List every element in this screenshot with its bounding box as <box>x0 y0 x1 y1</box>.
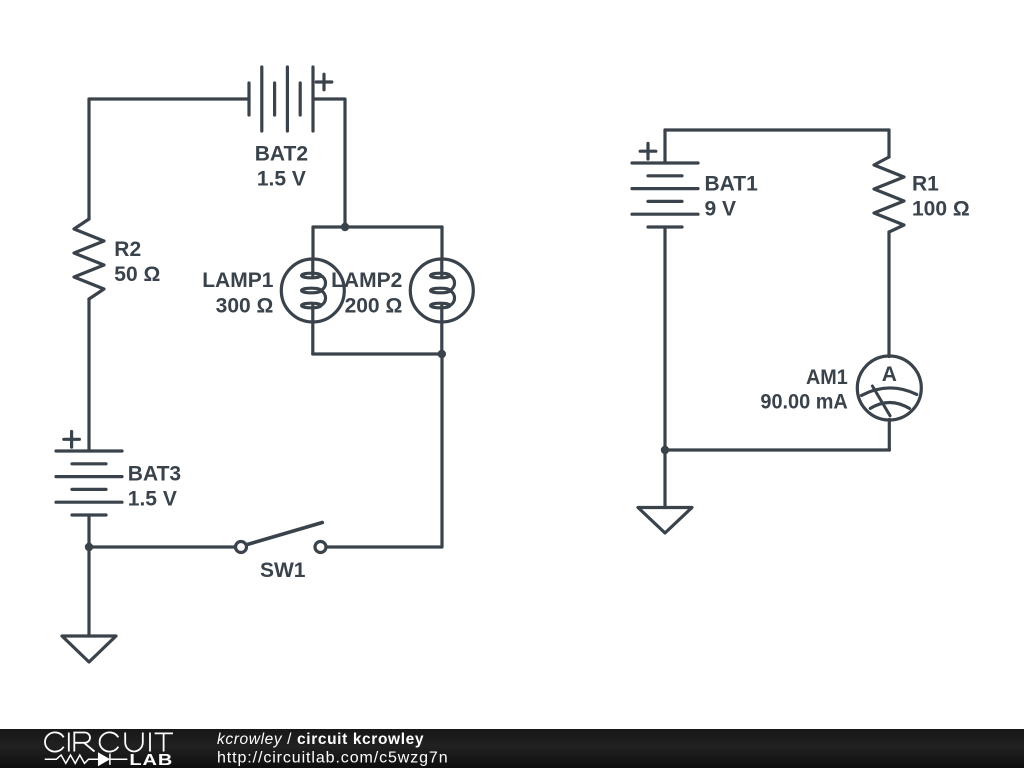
label AM1 value <box>760 366 848 414</box>
svg-text:AM1: AM1 <box>806 366 848 389</box>
switch SW1 <box>236 523 327 553</box>
right circuit bottom rail <box>665 448 889 451</box>
svg-text:LAMP1: LAMP1 <box>202 269 273 292</box>
battery BAT1 <box>632 163 698 227</box>
label R2 value <box>114 238 160 286</box>
right circuit top rail <box>665 128 889 131</box>
svg-text:SW1: SW1 <box>260 559 306 582</box>
wire from R2 bottom down to BAT3 top <box>87 299 90 451</box>
svg-text:200 Ω: 200 Ω <box>345 294 403 317</box>
label R1 value <box>912 173 970 221</box>
node junction at ground <box>85 543 93 551</box>
svg-text:kcrowley / circuit kcrowley: kcrowley / circuit kcrowley <box>217 731 424 748</box>
svg-text:LAMP2: LAMP2 <box>331 269 402 292</box>
label BAT2 value <box>255 143 308 191</box>
resistor R1 <box>874 157 904 232</box>
svg-text:LAB: LAB <box>129 751 173 768</box>
wire lamp2 branch top <box>440 227 443 259</box>
svg-text:90.00 mA: 90.00 mA <box>760 391 847 414</box>
plus sign of BAT1 <box>640 143 656 159</box>
plus sign of BAT2 <box>316 74 332 90</box>
battery BAT3 <box>56 451 122 515</box>
wire lamp2 branch bottom <box>440 322 443 354</box>
wire from bottom rail junction down to switch <box>327 354 442 547</box>
battery BAT2 <box>249 67 313 131</box>
CircuitLab logo word CIRCUIT <box>45 732 173 751</box>
wire from BAT2 positive terminal to corner and down to lamp top rail <box>313 99 345 227</box>
wire BAT3 bottom to ground junction <box>87 515 90 547</box>
node junction on bottom rail <box>438 350 446 358</box>
label BAT3 value <box>128 463 181 511</box>
lamp parallel top rail <box>313 225 442 228</box>
wire R1 top <box>887 130 890 157</box>
svg-text:9 V: 9 V <box>705 198 737 221</box>
wire ground stem right <box>663 450 666 508</box>
svg-text:http://circuitlab.com/c5wzg7n: http://circuitlab.com/c5wzg7n <box>217 750 449 767</box>
svg-text:100 Ω: 100 Ω <box>912 198 970 221</box>
resistor R2 <box>74 219 104 299</box>
svg-text:R2: R2 <box>114 238 141 261</box>
svg-text:A: A <box>882 363 897 386</box>
wire from top-left corner to BAT2 negative terminal <box>89 97 249 100</box>
wire junction to switch left terminal <box>89 545 235 548</box>
wire ground stem left <box>87 547 90 636</box>
node junction on top rail <box>341 223 349 231</box>
svg-text:BAT1: BAT1 <box>705 173 759 196</box>
svg-text:BAT3: BAT3 <box>128 463 181 486</box>
lamp LAMP1 <box>281 259 344 322</box>
ammeter AM1 <box>857 356 921 420</box>
wire left vertical from corner down to R2 top <box>87 99 90 219</box>
plus sign of BAT3 <box>64 432 80 448</box>
wire lamp1 branch bottom <box>311 322 314 354</box>
lamp parallel bottom rail <box>313 352 442 355</box>
label LAMP1 value <box>202 269 273 317</box>
node junction right ground <box>661 446 669 454</box>
label LAMP2 value <box>331 269 402 317</box>
svg-text:1.5 V: 1.5 V <box>128 488 177 511</box>
lamp LAMP2 <box>410 259 473 322</box>
label BAT1 value <box>705 173 759 221</box>
wire BAT1 bottom to ground junction <box>663 227 666 450</box>
wire BAT1 top <box>663 130 666 163</box>
svg-text:300 Ω: 300 Ω <box>216 294 274 317</box>
ground symbol right <box>638 508 692 534</box>
CircuitLab logo resistor-diode glyph <box>45 754 128 765</box>
svg-text:50 Ω: 50 Ω <box>114 263 160 286</box>
svg-text:BAT2: BAT2 <box>255 143 308 166</box>
wire R1 bottom to ammeter <box>887 232 890 357</box>
svg-text:R1: R1 <box>912 173 939 196</box>
wire lamp1 branch top <box>311 227 314 259</box>
wire ammeter bottom <box>888 420 891 451</box>
ground symbol left <box>62 636 116 662</box>
svg-text:1.5 V: 1.5 V <box>257 168 306 191</box>
